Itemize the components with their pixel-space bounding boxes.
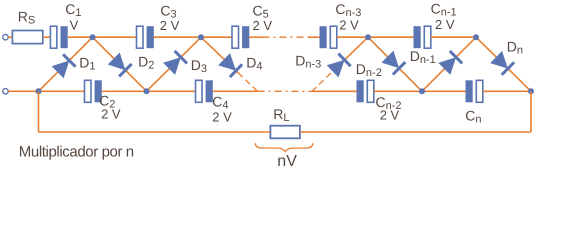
svg-text:2 V: 2 V bbox=[380, 108, 400, 123]
svg-text:Dn-2: Dn-2 bbox=[356, 61, 382, 79]
capacitor Cn-1 bbox=[414, 26, 431, 48]
diode Dn-3 bbox=[312, 37, 368, 91]
wire node C to Cn-1 bbox=[368, 36, 414, 38]
terminal input bottom bbox=[3, 89, 8, 94]
svg-text:Cn: Cn bbox=[465, 107, 481, 125]
terminal input top bbox=[3, 35, 8, 40]
svg-text:Cn-3: Cn-3 bbox=[335, 1, 361, 19]
svg-text:2 V: 2 V bbox=[160, 18, 180, 33]
wire to Cn-3 bbox=[308, 36, 320, 38]
capacitor C1 bbox=[50, 26, 67, 48]
wire Cn-3 to node C bbox=[337, 36, 368, 38]
resistor RL bbox=[270, 126, 300, 139]
svg-text:Multiplicador por n: Multiplicador por n bbox=[19, 143, 134, 160]
diode Dn bbox=[476, 37, 531, 91]
capacitor C5 bbox=[232, 26, 249, 48]
wire load bottom left bbox=[39, 131, 271, 133]
wire node B to C5 bbox=[201, 36, 232, 38]
svg-text:Dn: Dn bbox=[507, 38, 523, 56]
wire C1 to node A bbox=[68, 36, 93, 38]
diode D4 bbox=[201, 37, 258, 91]
wire RS to C1 bbox=[43, 36, 51, 38]
svg-text:D4: D4 bbox=[246, 55, 262, 73]
svg-text:2 V: 2 V bbox=[339, 18, 359, 33]
wire node A to C3 bbox=[93, 36, 137, 38]
wire load bottom right bbox=[300, 131, 531, 133]
wire C2 to C4 bbox=[102, 90, 196, 92]
capacitor Cn bbox=[466, 80, 483, 102]
svg-text:V: V bbox=[70, 18, 79, 33]
wire load left vertical bbox=[38, 91, 40, 132]
wire node F to Cn bbox=[422, 90, 466, 92]
brace nV bbox=[255, 143, 313, 151]
svg-text:D1: D1 bbox=[79, 54, 95, 72]
diode D2 bbox=[93, 37, 147, 91]
svg-text:RL: RL bbox=[273, 106, 289, 124]
svg-text:RS: RS bbox=[18, 8, 35, 26]
wire C5 right bbox=[249, 36, 262, 38]
node E bottom input junction bbox=[36, 88, 42, 94]
capacitor C2 bbox=[85, 80, 102, 102]
capacitor C4 bbox=[196, 80, 213, 102]
svg-text:2 V: 2 V bbox=[101, 106, 121, 121]
resistor RS bbox=[12, 31, 42, 44]
wire load right vertical bbox=[530, 91, 532, 132]
svg-text:Dn-1: Dn-1 bbox=[410, 48, 436, 66]
node A top after C1 bbox=[90, 34, 96, 40]
node C top after Cn-3 bbox=[365, 34, 371, 40]
svg-text:D3: D3 bbox=[191, 57, 207, 75]
svg-text:nV: nV bbox=[277, 153, 297, 170]
svg-text:2 V: 2 V bbox=[212, 110, 232, 125]
svg-text:2 V: 2 V bbox=[253, 18, 273, 33]
capacitor Cn-2 bbox=[357, 80, 374, 102]
svg-text:Dn-3: Dn-3 bbox=[295, 52, 321, 70]
diode Dn-2 bbox=[368, 37, 422, 91]
wire Cn to node G bbox=[483, 90, 531, 92]
node H bottom output bbox=[528, 88, 534, 94]
svg-text:C1: C1 bbox=[65, 1, 81, 19]
wire bottom dashed break bbox=[258, 90, 313, 92]
capacitor C3 bbox=[137, 26, 154, 48]
wire Cn-2 to node F bbox=[374, 90, 422, 92]
diode D1 bbox=[39, 37, 93, 91]
node D top after Cn-1 bbox=[473, 34, 479, 40]
node G bottom after Cn-2 bbox=[419, 88, 425, 94]
node F bottom after C2 bbox=[144, 88, 150, 94]
node B top after C3 bbox=[198, 34, 204, 40]
svg-text:Cn-1: Cn-1 bbox=[431, 0, 457, 18]
wire C4 right bbox=[213, 90, 258, 92]
svg-text:D2: D2 bbox=[138, 54, 154, 72]
wire top dashed break bbox=[263, 36, 309, 38]
diode Dn-1 bbox=[422, 37, 476, 91]
wire Cn-1 to node D bbox=[431, 36, 476, 38]
wire to Cn-2 bbox=[312, 90, 357, 92]
wire input bottom to C2 bbox=[8, 90, 84, 92]
svg-text:2 V: 2 V bbox=[435, 17, 455, 32]
diode D3 bbox=[147, 37, 202, 91]
wire C3 to node B bbox=[154, 36, 201, 38]
capacitor Cn-3 bbox=[320, 26, 337, 48]
wire input top stub bbox=[8, 36, 12, 38]
